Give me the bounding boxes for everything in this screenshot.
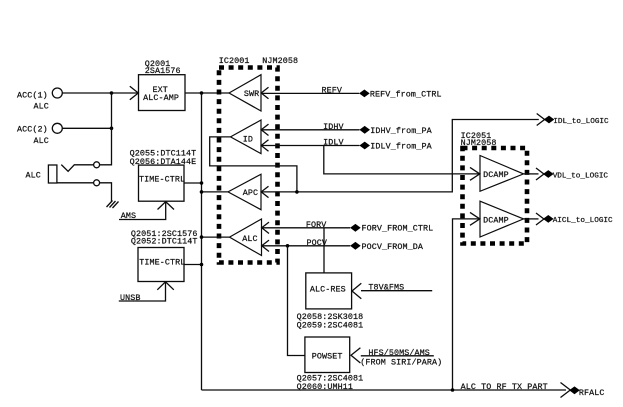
wire ALC output to bus: [202, 236, 230, 238]
svg-text:AICL_to_LOGIC: AICL_to_LOGIC: [553, 217, 613, 225]
svg-text:ALC: ALC: [34, 102, 49, 112]
svg-text:NJM2058: NJM2058: [262, 56, 298, 66]
wire ACC junction to EXT ALC-AMP input: [112, 92, 139, 94]
wire ACC(2) to bus: [62, 127, 111, 129]
node junction DCAMP2 bottom: [451, 388, 455, 392]
terminal diamond RFALC: [569, 386, 604, 398]
wire IDLV: [261, 145, 360, 147]
svg-text:REFV: REFV: [322, 85, 343, 95]
wire EXT output to SWR: [185, 92, 229, 94]
svg-text:IDLV_from_PA: IDLV_from_PA: [370, 142, 432, 152]
svg-text:VDL_to_LOGIC: VDL_to_LOGIC: [553, 172, 609, 180]
wire DCAMP2 input from ALC line: [453, 219, 481, 390]
wire FORV branch to ALC-RES: [323, 228, 325, 273]
amplifier Q2001 EXT ALC-AMP: [130, 59, 185, 111]
svg-text:(FROM SIRI/PARA): (FROM SIRI/PARA): [360, 358, 442, 368]
svg-text:RFALC: RFALC: [579, 388, 605, 398]
IC2051 dashed box: [461, 131, 527, 243]
terminal diamond POCV_FROM_DA: [350, 242, 424, 252]
op-amp DCAMP U2051b: [470, 201, 524, 237]
svg-text:IDLV: IDLV: [323, 138, 344, 148]
terminal diamond IDHV_from_PA: [359, 126, 432, 136]
svg-text:T8V&FMS: T8V&FMS: [368, 283, 404, 293]
node junction ACC(2): [110, 127, 114, 131]
wire REFV: [261, 92, 359, 94]
svg-text:TIME-CTRL: TIME-CTRL: [139, 258, 185, 268]
svg-text:HFS/50MS/AMS: HFS/50MS/AMS: [368, 348, 430, 358]
block POWSET: [305, 337, 361, 373]
terminal ACC(2): [17, 123, 62, 146]
block TIME-CTRL Q2055 Q2056: [130, 149, 197, 202]
output VDL arrow: [536, 168, 544, 180]
wire HFS/50MS/AMS input: [361, 355, 434, 357]
terminal diamond VDL_to_LOGIC: [543, 170, 608, 180]
ground: [107, 201, 119, 209]
wire TIME-CTRL1 output to bus: [184, 182, 202, 184]
node junction APC bus: [200, 190, 204, 194]
svg-text:ALC TO RF TX PART: ALC TO RF TX PART: [461, 382, 548, 392]
terminal diamond FORV_FROM_CTRL: [350, 224, 433, 234]
terminal diamond AICL_to_LOGIC: [543, 215, 613, 225]
svg-text:ALC-RES: ALC-RES: [310, 284, 346, 294]
svg-text:TIME-CTRL: TIME-CTRL: [139, 175, 185, 185]
node junction TIME-CTRL2: [200, 263, 204, 267]
output IDL_to_LOGIC arrow: [537, 114, 545, 126]
node junction ACC(1): [110, 91, 114, 95]
op-amp ID: [231, 120, 269, 154]
svg-text:REFV_from_CTRL: REFV_from_CTRL: [370, 90, 442, 100]
svg-text:APC: APC: [243, 188, 258, 198]
label Q2057 Q2060: [297, 374, 364, 392]
wire ALC TO RF TX PART bottom: [202, 389, 567, 391]
wire IDLV branch to DCAMP1: [324, 146, 480, 174]
op-amp ALC: [230, 219, 270, 256]
svg-text:FORV_FROM_CTRL: FORV_FROM_CTRL: [362, 224, 434, 234]
svg-text:IDL_to_LOGIC: IDL_to_LOGIC: [553, 118, 609, 126]
wire input bus vertical: [100, 93, 112, 165]
input AMS with arrow: [119, 202, 174, 222]
IC2001 dashed box: [219, 56, 298, 263]
svg-text:IDHV: IDHV: [323, 122, 344, 132]
svg-text:ID: ID: [243, 134, 253, 144]
svg-text:ALC-AMP: ALC-AMP: [143, 93, 179, 103]
node junction POCV branch: [286, 244, 290, 248]
jack J ALC: [26, 162, 100, 186]
node junction TIME-CTRL1: [200, 181, 204, 185]
wire IDHV: [261, 129, 360, 131]
block ALC-RES: [306, 273, 362, 309]
wire DCAMP2 output: [524, 218, 539, 220]
svg-text:POCV_FROM_DA: POCV_FROM_DA: [362, 242, 424, 252]
wire ACC(1) to bus: [62, 92, 111, 94]
svg-text:ALC: ALC: [34, 136, 49, 146]
terminal diamond IDL_to_LOGIC: [544, 116, 609, 126]
wire POCV: [262, 245, 351, 247]
wire FORV: [262, 227, 351, 229]
wire ID output to APC input line: [210, 137, 297, 192]
op-amp SWR: [229, 75, 269, 111]
wire APC input line to IDL corner: [261, 120, 539, 192]
wire jack to ground: [100, 183, 112, 202]
svg-text:IDHV_from_PA: IDHV_from_PA: [370, 126, 432, 136]
output RFALC arrow: [561, 383, 571, 398]
output AICL arrow: [536, 213, 544, 225]
terminal diamond REFV_from_CTRL: [359, 90, 442, 100]
wire T8V&FMS input: [361, 290, 432, 292]
op-amp APC: [228, 174, 269, 210]
svg-text:POWSET: POWSET: [312, 352, 343, 362]
svg-text:ALC: ALC: [26, 170, 41, 180]
svg-text:Q2059:2SC4081: Q2059:2SC4081: [297, 320, 364, 330]
wire main bus vertical: [201, 93, 203, 390]
op-amp DCAMP U2051a: [470, 156, 524, 192]
wire TIME-CTRL2 output to bus: [184, 264, 202, 266]
wire DCAMP1 output: [524, 173, 539, 175]
terminal diamond IDLV_from_PA: [359, 142, 432, 152]
svg-text:ALC: ALC: [242, 234, 257, 244]
node junction bus top: [200, 91, 204, 95]
wire APC output to bus: [202, 191, 229, 193]
node junction ID-APC: [295, 190, 299, 194]
svg-text:Q2052:DTC114T: Q2052:DTC114T: [131, 237, 198, 247]
svg-text:IC2001: IC2001: [219, 56, 250, 66]
node junction ALC bus: [200, 235, 204, 239]
terminal ACC(1): [17, 88, 62, 112]
block TIME-CTRL Q2051 Q2052: [131, 229, 198, 282]
svg-text:FORV: FORV: [306, 220, 327, 230]
svg-text:DCAMP: DCAMP: [483, 216, 509, 226]
label Q2058 Q2059: [297, 312, 364, 330]
svg-text:DCAMP: DCAMP: [483, 170, 509, 180]
svg-text:SWR: SWR: [244, 89, 259, 99]
svg-text:ACC(2): ACC(2): [17, 125, 48, 135]
input UNSB with arrow: [119, 282, 174, 303]
svg-text:ACC(1): ACC(1): [17, 90, 48, 100]
wire POCV branch to POWSET: [288, 246, 305, 356]
